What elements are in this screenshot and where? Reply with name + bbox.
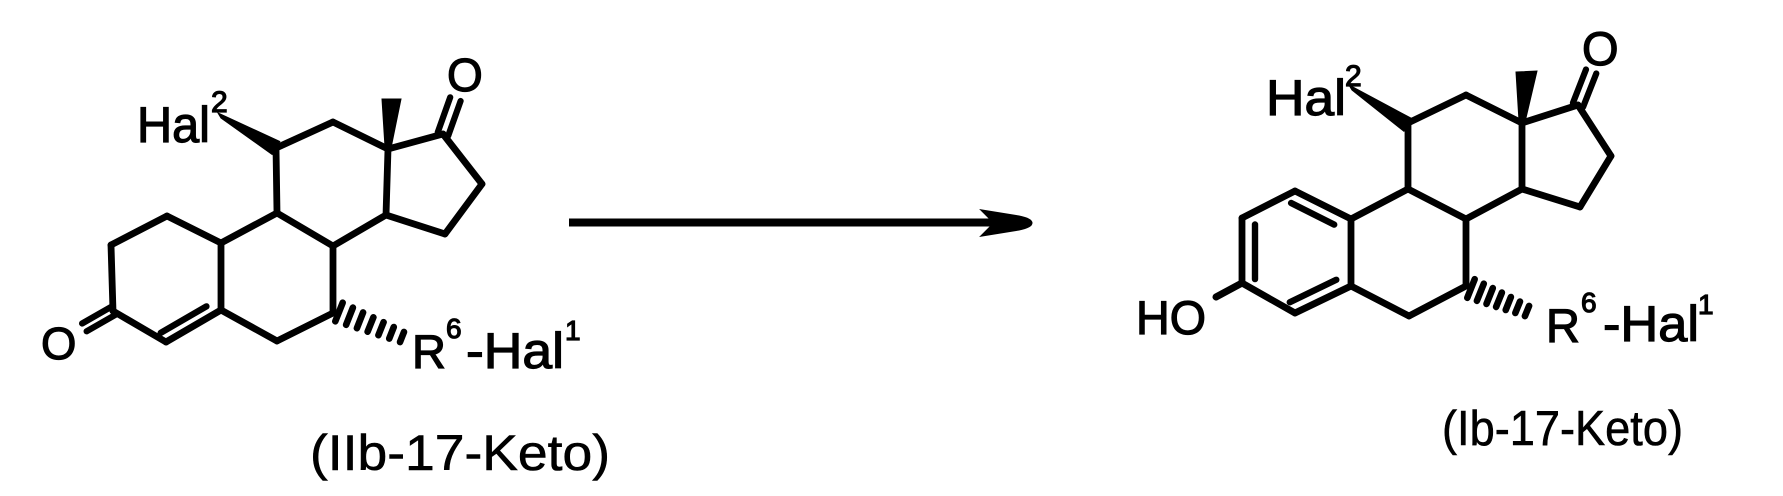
svg-text:O: O [1582,22,1619,75]
bond C9-C11 (right) [1405,123,1412,189]
bond C10-C1 (right) [1295,191,1351,219]
bond C2-C3 (left) [111,245,113,311]
wedge bond C11-Hal2 (right) [1349,85,1412,131]
bond C17-C16 (left) [443,134,482,184]
bond C6-C5 (left) [221,310,277,341]
svg-text:(IIb-17-Keto): (IIb-17-Keto) [310,425,610,481]
bond C8-C7 (left) [330,246,337,313]
bond C17-C16 (right) [1578,105,1611,156]
bond C16-C15 (right) [1580,156,1611,207]
bond C4-C5 (left) [166,310,221,342]
svg-text:R: R [1546,299,1580,352]
bond C15-C14 (right) [1522,189,1580,207]
bond C13-C14 (left) [386,149,388,215]
bond C11-C12 (left) [276,122,333,148]
bond C13-C17 (left) [388,134,443,149]
hashed bond C7-R6 (right) [1467,279,1474,298]
bond C5-C10 (left) [218,243,225,310]
svg-text:-Hal: -Hal [1603,296,1699,352]
svg-text:Hal: Hal [1266,70,1346,126]
bond C1-C2 (right) [1242,191,1295,218]
bond C10-C9 (left) [221,213,277,243]
reaction arrow shaft [569,219,1002,227]
double bond C17=O (right) [1573,70,1586,104]
svg-text:-Hal: -Hal [466,323,564,379]
bond C13-C14 (right) [1519,123,1526,189]
bond C14-C8 (left) [333,215,386,246]
svg-text:6: 6 [1581,287,1597,318]
bond C7-C6 (left) [277,313,333,341]
bond C8-C7 (right) [1463,219,1470,286]
double bond C17=O (left) [438,97,450,132]
svg-text:2: 2 [1345,60,1362,93]
bond C9-C8 (right) [1408,189,1466,219]
bond C5-C10 (right) [1348,219,1355,286]
wedge bond C11-Hal2 (left) [218,113,280,155]
bond C2-C3 (right) [1239,218,1246,283]
svg-text:6: 6 [446,313,462,344]
aromatic double bond C4=C5 inner (right) [1290,280,1337,302]
bond C12-C13 (right) [1466,95,1522,123]
bond O-C3 hydroxyl (right) [1216,283,1242,297]
aromatic double bond C10=C1 inner (right) [1291,203,1334,225]
svg-text:1: 1 [565,315,581,346]
svg-text:O: O [447,49,483,101]
bond C1-C2 (left) [111,216,167,245]
bond C7-C6 (right) [1409,286,1466,316]
bond C16-C15 (left) [445,184,482,234]
svg-text:R: R [412,325,446,378]
bond C3-C4 (right) [1242,283,1295,313]
svg-text:1: 1 [1698,289,1714,320]
aromatic double bond C2=C3 inner (right) [1252,225,1258,280]
bond C11-C12 (right) [1408,95,1466,123]
bond C14-C8 (right) [1466,189,1522,219]
bond C6-C5 (right) [1351,286,1409,316]
svg-text:O: O [41,318,76,369]
bond C10-C1 (left) [167,216,221,243]
reaction arrow head [982,211,1032,236]
svg-text:2: 2 [211,86,228,119]
bond C9-C8 (left) [277,213,333,246]
bond C13-C17 (right) [1522,105,1578,123]
methyl wedge at C13 (right) [1516,71,1537,122]
double bond C3=O (left) [87,315,116,331]
right steroid structure Ib-17-Keto [1136,22,1714,456]
bond C9-C11 (left) [276,148,277,213]
double bond C4=C5 inner line (left) [161,306,207,333]
hashed bond C7-R6 (left) [335,303,342,322]
svg-text:(Ib-17-Keto): (Ib-17-Keto) [1442,402,1683,456]
bond C3-C4 (left) [113,311,166,342]
svg-text:Hal: Hal [137,97,210,153]
bond C4-C5 (right) [1295,286,1351,313]
bond C15-C14 (left) [386,215,445,234]
bond C10-C9 (right) [1351,189,1408,219]
left steroid structure IIb-17-Keto [41,49,610,481]
methyl wedge at C13 (left) [382,99,401,148]
bond C12-C13 (left) [333,122,388,149]
svg-text:HO: HO [1136,291,1206,344]
